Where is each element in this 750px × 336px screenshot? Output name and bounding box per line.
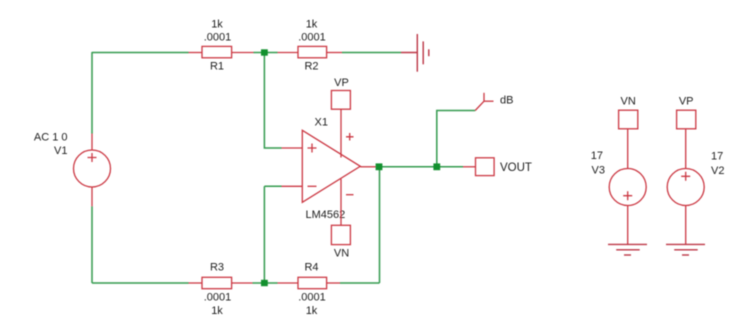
svg-text:.0001: .0001 — [298, 32, 326, 44]
svg-text:V2: V2 — [711, 165, 724, 177]
svg-text:VN: VN — [621, 95, 636, 107]
wire bottom horizontal from V1 to R3 — [92, 282, 189, 284]
svg-text:.0001: .0001 — [298, 292, 326, 304]
port VOUT — [463, 158, 494, 176]
svg-text:1k: 1k — [211, 305, 223, 317]
svg-text:V3: V3 — [592, 165, 605, 177]
wire V1 bottom vertical — [91, 206, 93, 283]
port VN box of source V3 — [619, 110, 638, 129]
svg-text:VN: VN — [334, 247, 349, 259]
junction B — [261, 280, 268, 286]
svg-text:dB: dB — [500, 94, 513, 106]
resistor R1 — [189, 46, 254, 57]
voltage source V3 — [609, 129, 646, 245]
junction output — [376, 163, 383, 170]
ground under V3 — [608, 244, 647, 255]
svg-text:R4: R4 — [304, 262, 318, 274]
wire V1 top vertical — [91, 52, 93, 134]
resistor R4 — [278, 277, 341, 288]
voltage source V1 — [74, 134, 111, 207]
junction C — [433, 163, 440, 170]
svg-text:LM4562: LM4562 — [306, 209, 346, 221]
svg-text:17: 17 — [711, 151, 723, 163]
ground top-right — [401, 34, 429, 72]
svg-text:.0001: .0001 — [204, 32, 232, 44]
svg-text:.0001: .0001 — [204, 292, 232, 304]
port VP box of source V2 — [677, 110, 696, 129]
wire junction A down to plus input corner — [264, 53, 281, 149]
svg-text:17: 17 — [591, 150, 603, 162]
resistor R3 — [189, 277, 253, 288]
wire R3 right to junction B — [253, 282, 263, 284]
svg-text:VOUT: VOUT — [500, 162, 532, 174]
svg-text:VP: VP — [679, 95, 694, 107]
svg-text:V1: V1 — [54, 145, 67, 157]
wire junction B to R4 left — [266, 282, 278, 284]
svg-text:VP: VP — [334, 77, 349, 89]
wire output junction to junction C — [382, 166, 434, 168]
svg-text:1k: 1k — [306, 19, 318, 31]
junction A — [261, 49, 268, 55]
voltage source V2 — [667, 129, 704, 245]
svg-text:1k: 1k — [211, 19, 223, 31]
wire junction C up to dB probe — [437, 111, 475, 165]
port VN on op-amp — [331, 179, 353, 245]
op-amp X1 — [282, 130, 376, 202]
svg-text:X1: X1 — [315, 117, 328, 129]
wire junction C to VOUT lead — [440, 166, 463, 168]
wire junction A to R2 left — [266, 52, 278, 54]
ground under V2 — [666, 244, 705, 255]
wire minus input corner down to junction B — [264, 186, 281, 283]
svg-text:R3: R3 — [210, 262, 224, 274]
wire top-left horizontal from V1 top to R1 — [92, 52, 189, 54]
wire R2 right to ground — [342, 52, 401, 54]
svg-text:1k: 1k — [306, 305, 318, 317]
svg-text:R1: R1 — [210, 61, 224, 73]
svg-text:AC 1 0: AC 1 0 — [34, 132, 68, 144]
svg-text:R2: R2 — [304, 61, 318, 73]
port VP on op-amp — [331, 91, 353, 158]
resistor R2 — [278, 46, 343, 57]
wire R4 right to feedback corner — [340, 170, 380, 283]
probe dB — [475, 93, 493, 111]
wire R1 right to junction A — [254, 52, 263, 54]
